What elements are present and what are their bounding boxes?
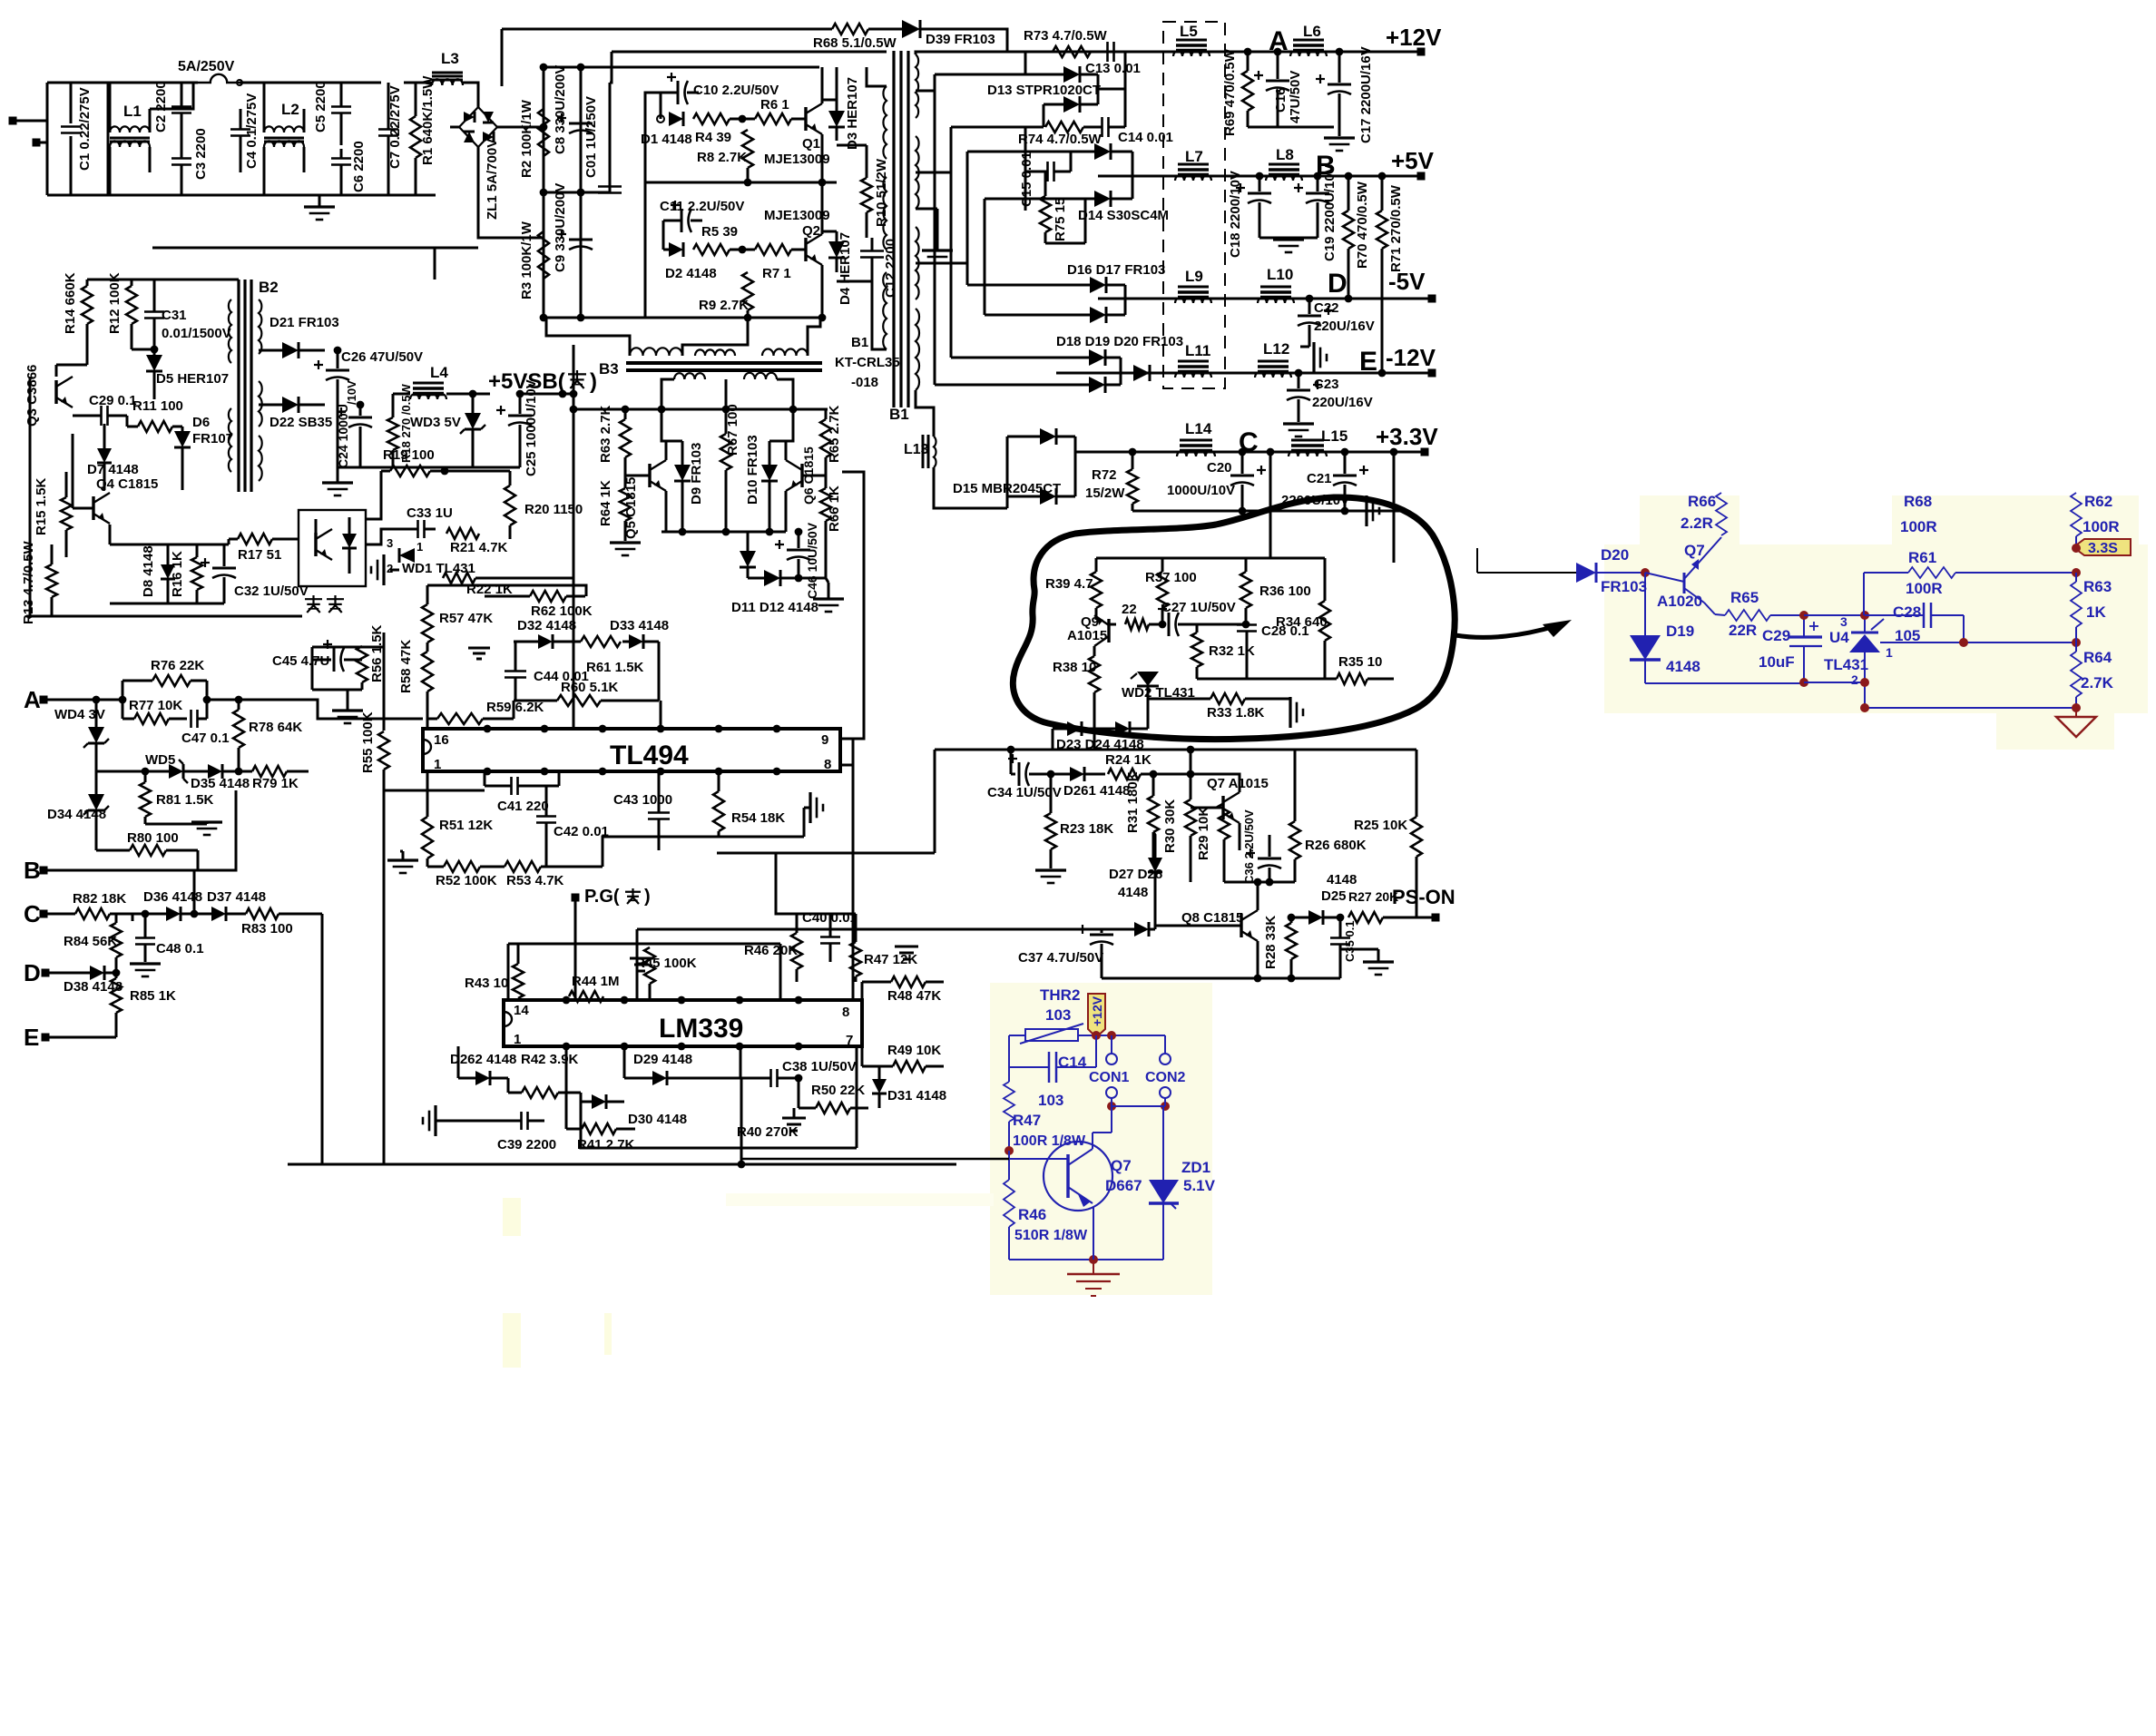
wire TL494 right link down [852, 765, 855, 929]
svg-text:C21: C21 [1307, 471, 1332, 486]
resistor R63 inset [2071, 573, 2112, 652]
resistor R72 15/2W [1085, 448, 1138, 511]
resistor R3 100K/1W [519, 221, 549, 299]
wire sec ladder v2 [950, 127, 953, 358]
wire C8 column [580, 67, 583, 318]
wire sec ladder v1 stub a [935, 74, 1025, 76]
svg-text:D3 HER107: D3 HER107 [845, 77, 860, 150]
wire pin9 col [852, 739, 855, 1000]
resistor R63 2.7K [598, 405, 631, 476]
svg-text:C28: C28 [1893, 603, 1921, 621]
wire lm339 frame top [508, 943, 780, 946]
resistor R67 100 [720, 404, 740, 532]
terminal C [24, 900, 75, 927]
svg-text:R36 100: R36 100 [1259, 584, 1311, 599]
wire driver bus y451 [573, 406, 828, 414]
diode D2 4148 [663, 242, 717, 281]
wire PG down [574, 897, 577, 944]
wire lm339 right col [861, 982, 864, 1046]
TL431 WD2 [1122, 672, 1195, 701]
resistor R56 1.5K [357, 624, 385, 690]
arrow to inset [1455, 620, 1572, 637]
svg-text:R44 1M: R44 1M [572, 974, 620, 989]
ground R23 [1035, 870, 1066, 883]
svg-text:B: B [24, 857, 41, 884]
svg-text:+5V: +5V [1391, 147, 1435, 174]
svg-text:CON1: CON1 [1089, 1070, 1130, 1085]
wire standby mid rail [110, 544, 224, 546]
wire standby low rail [110, 603, 224, 605]
wire C27 R32 join [1197, 623, 1247, 626]
svg-text:KT-CRL35: KT-CRL35 [835, 355, 900, 370]
label B1 KT-CRL35-018 [835, 335, 900, 390]
resistor R47 12K [850, 914, 917, 982]
wire top rail left drop [501, 29, 504, 86]
svg-text:R45 100K: R45 100K [635, 956, 697, 971]
svg-text:R10 51/2W: R10 51/2W [874, 158, 889, 227]
svg-text:D1 4148: D1 4148 [641, 132, 692, 147]
ground R51 [387, 851, 418, 873]
diode D5 HER107 [132, 346, 229, 399]
ground C22 sideways [1300, 342, 1327, 373]
ground R64 [610, 543, 641, 555]
svg-text:22R: 22R [1729, 622, 1757, 639]
svg-text:R12 100K: R12 100K [107, 272, 122, 334]
svg-text:+5VSB(: +5VSB( [488, 369, 565, 394]
wire y57 feed [612, 51, 887, 54]
diode D37 4148 [194, 889, 266, 921]
wire blob top feed [1096, 557, 1325, 560]
resistor R9 2.7K [699, 272, 753, 313]
diode D33 4148 [610, 618, 669, 649]
wire fuse to L2 top [240, 82, 381, 84]
wire sec ladder v1 [934, 74, 936, 385]
wire Q7 collector down [1239, 823, 1241, 850]
svg-text:0.01/1500V: 0.01/1500V [162, 326, 231, 341]
diode D29 4148 [624, 1046, 740, 1085]
resistor R82 18K [73, 891, 132, 919]
wire cell left boundary [644, 119, 647, 318]
wire B3 sec right [777, 379, 793, 409]
svg-text:R76 22K: R76 22K [151, 658, 204, 673]
junction R47 node [1004, 1146, 1014, 1155]
wire Q4 emitter [109, 525, 112, 544]
transistor Q7 D667 [1009, 1106, 1142, 1211]
svg-text:R69 470/0.5W: R69 470/0.5W [1222, 48, 1238, 136]
wire Q2 collector up [821, 182, 824, 234]
svg-text:D25: D25 [1321, 888, 1347, 904]
TL431 WD1 [387, 536, 475, 576]
svg-text:R27 20K: R27 20K [1348, 889, 1398, 904]
svg-text:): ) [644, 887, 651, 907]
resistor R31 180K [1125, 770, 1159, 858]
resistor R16 1K [170, 544, 202, 603]
ground PS-ON area [1340, 949, 1394, 975]
wire B1 sec top to +12 wire [916, 52, 1007, 54]
transistor Q8 C1815 [1155, 910, 1258, 941]
capacitor C18 2200/10V [1228, 171, 1271, 258]
junction mid bus [744, 179, 827, 187]
resistor R38 10 [1053, 646, 1100, 729]
svg-text:R84 56K: R84 56K [64, 934, 117, 949]
svg-text:C39 2200: C39 2200 [497, 1137, 556, 1152]
ground R40 [782, 1108, 806, 1131]
transformer B2 secondary winding [259, 299, 262, 481]
junction C8-C9 [544, 189, 610, 197]
resistor R68 5.1/0.5W [813, 24, 897, 51]
svg-text:D30 4148: D30 4148 [628, 1112, 687, 1127]
svg-text:C35 0.1: C35 0.1 [1343, 920, 1357, 962]
wire sec ladder v4 stub a [985, 198, 1085, 201]
wire C node drop [1267, 448, 1275, 558]
svg-text:3: 3 [1840, 614, 1847, 629]
svg-text:510R 1/8W: 510R 1/8W [1014, 1228, 1088, 1243]
resistor R19 100 [381, 447, 448, 510]
svg-text:THR2: THR2 [1040, 986, 1080, 1004]
svg-text:R30 30K: R30 30K [1162, 799, 1178, 853]
capacitor C6 [331, 141, 367, 195]
resistor R61 1.5K [575, 636, 644, 675]
diode D14 S30SC4M pair [1045, 143, 1169, 243]
resistor R76 22K [122, 658, 207, 700]
resistor R24 1K [1105, 752, 1191, 780]
svg-text:1: 1 [1886, 645, 1893, 660]
wire R4-R6 node [730, 118, 755, 121]
resistor R22ish 22 [1122, 602, 1162, 630]
wire Q6 collector [786, 409, 793, 460]
terminal E [24, 1024, 116, 1051]
svg-text:B1: B1 [851, 335, 868, 350]
capacitor C39 2200 [497, 1112, 556, 1152]
svg-text:1000U/10V: 1000U/10V [1167, 483, 1235, 498]
svg-text:D9 FR103: D9 FR103 [689, 443, 704, 505]
svg-text:R26 680K: R26 680K [1305, 838, 1367, 853]
resistor R49 10K [862, 1043, 944, 1072]
resistor R74 4.7/0.5W [1018, 122, 1102, 147]
wire C40 bus [740, 1046, 742, 1078]
svg-text:D11 D12 4148: D11 D12 4148 [731, 600, 818, 615]
wire +12V rail [1007, 51, 1417, 54]
wire +3.3 bottom return [1132, 510, 1401, 513]
diode D21 FR103 [259, 315, 339, 358]
wire x355 riser [288, 998, 322, 1164]
resistor R40 270K [737, 1124, 799, 1140]
svg-text:R29 10K: R29 10K [1196, 807, 1211, 860]
svg-text:A1020: A1020 [1657, 593, 1702, 610]
svg-text:5.1V: 5.1V [1183, 1177, 1216, 1194]
svg-text:100R: 100R [1906, 580, 1943, 597]
svg-text:R46: R46 [1018, 1206, 1046, 1223]
svg-text:C20: C20 [1207, 460, 1232, 476]
svg-text:3: 3 [387, 536, 393, 550]
svg-text:D6: D6 [192, 415, 210, 430]
svg-text:A: A [24, 686, 41, 713]
terminal -12V [1386, 344, 1436, 378]
label +5VSB [488, 369, 597, 394]
wire R42 col down [581, 1093, 625, 1148]
resistor R48 47K [862, 976, 944, 1004]
diode D7 4148 [87, 424, 139, 490]
wire under TL494 [603, 837, 719, 867]
svg-text:C47 0.1: C47 0.1 [181, 731, 230, 746]
capacitor C19 2200U/10V [1294, 164, 1338, 261]
wire feed into inset [741, 1159, 1009, 1164]
capacitor C36 2.2U/50V [1242, 809, 1281, 884]
wire R46 top rail [797, 913, 856, 916]
resistor R58 47K [398, 640, 433, 729]
diode D31 4148 [872, 1066, 946, 1108]
wire hv drop to B2 [434, 248, 436, 280]
wire C1 box bottom [47, 194, 108, 197]
thermistor THR2 [1009, 1024, 1130, 1044]
wire R8 bottom [747, 168, 750, 182]
capacitor C46 10U/50V [775, 522, 819, 599]
diode D28 4148 [637, 885, 1155, 1000]
svg-text:R73 4.7/0.5W: R73 4.7/0.5W [1024, 28, 1108, 44]
wire A node to TL494 [384, 718, 423, 721]
svg-text:D2 4148: D2 4148 [665, 266, 717, 281]
terminal +3.3V [1376, 423, 1438, 456]
svg-text:D31 4148: D31 4148 [887, 1088, 946, 1103]
resistor R33 1.8K [1148, 693, 1283, 721]
wire B node right [198, 790, 236, 870]
diode D30 4148 [581, 1093, 687, 1127]
svg-text:22: 22 [1122, 602, 1137, 617]
svg-text:-12V: -12V [1386, 344, 1436, 371]
ground R33 [1283, 697, 1303, 728]
resistor R21 4.7K [446, 528, 508, 555]
ground +3.3 sideways [1367, 495, 1379, 526]
inductor L1 (common-mode choke) [108, 83, 150, 195]
svg-text:D5 HER107: D5 HER107 [156, 371, 229, 387]
svg-text:1: 1 [416, 540, 423, 554]
label opto [305, 595, 344, 613]
svg-text:R49 10K: R49 10K [887, 1043, 941, 1058]
diode D20 blue [1576, 546, 1650, 595]
svg-text:16: 16 [434, 732, 449, 748]
svg-text:C4 0.1/275V: C4 0.1/275V [244, 93, 260, 169]
svg-text:R53 4.7K: R53 4.7K [506, 873, 564, 888]
wire primary bottom bus [544, 317, 820, 319]
svg-text:LM339: LM339 [659, 1014, 743, 1044]
terminal PG [572, 887, 651, 907]
svg-text:C3 2200: C3 2200 [193, 128, 209, 180]
svg-text:L6: L6 [1303, 23, 1321, 40]
svg-text:FR103: FR103 [1601, 578, 1647, 595]
svg-text:B1: B1 [889, 406, 909, 423]
wire mid link [384, 790, 485, 792]
svg-text:D261 4148: D261 4148 [1063, 783, 1130, 799]
svg-text:C26 47U/50V: C26 47U/50V [341, 349, 423, 365]
diode D6 FR107 [174, 415, 233, 490]
wire C16 bottom join [1248, 126, 1334, 129]
svg-text:A1015: A1015 [1067, 628, 1107, 643]
svg-text:R66 1K: R66 1K [827, 485, 842, 532]
diode D1 4148 [641, 112, 692, 147]
label THR2 103 [1040, 986, 1080, 1024]
svg-text:R16 1K: R16 1K [170, 551, 185, 597]
wire D4 connects [822, 230, 837, 233]
wire bottom inset rail [1009, 1207, 1163, 1264]
svg-text:Q3 C3866: Q3 C3866 [24, 365, 40, 427]
label A output [1269, 26, 1289, 56]
capacitor C5 [313, 81, 351, 145]
ground driver cell [813, 578, 844, 612]
wire top rail y32 [502, 28, 832, 31]
wire A node right [239, 700, 384, 719]
inductor L8 [1266, 146, 1302, 181]
wire sec ladder v4 [984, 199, 986, 315]
transformer B3 core [599, 360, 822, 378]
svg-text:D: D [24, 959, 41, 986]
wire R32/C28 bottom bus [1197, 678, 1325, 681]
transistor Q7 inset [1645, 537, 1721, 614]
svg-text:Q5 C1815: Q5 C1815 [623, 477, 639, 539]
resistor R12 100K [107, 272, 137, 349]
svg-text:D4 HER107: D4 HER107 [838, 232, 853, 305]
svg-text:D22 SB35: D22 SB35 [269, 415, 332, 430]
svg-text:R42 3.9K: R42 3.9K [521, 1052, 579, 1067]
transistor Q5 C1815 [623, 460, 666, 539]
svg-text:L5: L5 [1180, 23, 1198, 40]
transformer B1 secondary winding [916, 54, 919, 390]
wire R55 col down [383, 770, 386, 1164]
capacitor C40 0.01 [802, 910, 857, 962]
svg-text:R19 100: R19 100 [383, 447, 435, 463]
zener D34 4148 [47, 771, 109, 850]
junction A node [119, 696, 238, 704]
resistor R8 2.7K [697, 130, 753, 168]
svg-text:D7 4148: D7 4148 [87, 462, 139, 477]
resistor R29 10K [1196, 803, 1230, 882]
resistor R83 100 [241, 908, 322, 937]
svg-text:R17 51: R17 51 [238, 547, 281, 563]
svg-text:C1 0.22/275V: C1 0.22/275V [77, 87, 93, 171]
resistor R75 15 [1040, 172, 1068, 243]
resistor R13 4.7/0.5W [21, 540, 57, 624]
svg-text:103: 103 [1045, 1006, 1071, 1024]
svg-text:R6 1: R6 1 [760, 97, 789, 113]
svg-text:R9 2.7K: R9 2.7K [699, 298, 749, 313]
capacitor C28 inset [1865, 603, 1964, 644]
inductor L12 [1255, 340, 1291, 378]
resistor R68 inset [1900, 493, 1937, 535]
wire mid bus y201 [645, 181, 837, 184]
terminal +12V [1386, 24, 1442, 56]
svg-text:R58 47K: R58 47K [398, 640, 414, 693]
wire C1 box right [107, 83, 110, 195]
svg-text:MJE13009: MJE13009 [764, 208, 830, 223]
wire Q6 emitter [785, 491, 788, 532]
capacitor C1 [61, 83, 93, 195]
svg-text:10uF: 10uF [1759, 653, 1795, 671]
svg-text:D20: D20 [1601, 546, 1629, 564]
wire opto to R17 [272, 538, 299, 541]
svg-text:R62 100K: R62 100K [531, 603, 593, 619]
transistor Q6 C1815 [786, 446, 826, 505]
svg-text:R78 64K: R78 64K [249, 720, 302, 735]
wire driver emitter bus [661, 528, 786, 536]
svg-text:C11 2.2U/50V: C11 2.2U/50V [660, 199, 744, 214]
svg-text:C: C [24, 900, 41, 927]
resistor R59 6.2K [427, 700, 544, 724]
wire hv feed left [152, 247, 478, 250]
svg-text:R57 47K: R57 47K [439, 611, 493, 626]
capacitor C41 220 [485, 771, 559, 814]
resistor R41 2.7K [566, 1046, 635, 1152]
wire B1 sec stub top [916, 90, 935, 93]
inductor L13 [904, 435, 936, 468]
svg-text:8: 8 [842, 1005, 849, 1020]
resistor R62 100K [485, 591, 593, 619]
terminal +5V [1391, 147, 1435, 181]
resistor R65 2.7K [820, 405, 842, 476]
resistor R69 470/0.5W [1222, 48, 1253, 136]
capacitor C15 0.01 [1019, 127, 1071, 211]
svg-text:D14 S30SC4M: D14 S30SC4M [1078, 208, 1169, 223]
svg-text:C42 0.01: C42 0.01 [554, 824, 609, 839]
resistor R5 39 [693, 224, 738, 255]
resistor R6 1 [755, 97, 791, 124]
transformer B1 primary winding [883, 86, 887, 349]
svg-text:C33 1U: C33 1U [407, 505, 453, 521]
wire R5-R7 node [730, 249, 755, 251]
resistor R85 1K [111, 969, 176, 1037]
junction rails [1244, 48, 1387, 378]
svg-text:C24 1000U: C24 1000U [336, 404, 350, 468]
transformer B2 primary winding [229, 299, 231, 472]
ground C39 sideways [423, 1105, 508, 1136]
svg-text:L2: L2 [281, 101, 299, 118]
resistor R37 100 [1145, 558, 1197, 624]
wire B3 pri stub1 [546, 318, 630, 356]
svg-text:R65 2.7K: R65 2.7K [827, 405, 842, 463]
svg-text:WD5: WD5 [145, 752, 175, 768]
svg-text:R23 18K: R23 18K [1060, 821, 1113, 837]
wire B3 pri stub3 [808, 318, 820, 356]
connector CON2 [1130, 1035, 1186, 1098]
diode D15 MBR2045CT pair [953, 428, 1075, 508]
tag 3.3S [2072, 539, 2131, 556]
capacitor C45 4.7U [272, 640, 362, 672]
resistor R27 20K [1348, 889, 1432, 923]
svg-text:R67 100: R67 100 [725, 404, 740, 456]
wire D15 to +3.3 rail [1075, 451, 1089, 454]
capacitor C23 220U/16V [1287, 369, 1373, 422]
capacitor C38 1U/50V [740, 1059, 857, 1087]
ground WD1 sideways [371, 554, 399, 585]
svg-text:R47: R47 [1013, 1112, 1041, 1129]
svg-text:L9: L9 [1185, 268, 1203, 285]
svg-text:R83 100: R83 100 [241, 921, 293, 937]
inductor L6 [1290, 23, 1327, 56]
wire L3 to bridge [472, 83, 478, 91]
diode D11 4148 [740, 532, 756, 578]
resistor R54 18K [713, 771, 785, 837]
svg-text:/10V: /10V [345, 380, 358, 405]
zener WD4 3V [54, 696, 109, 771]
inductor L15 [1289, 427, 1347, 456]
resistor R60 5.1K [514, 642, 659, 706]
label A1020 [1657, 593, 1702, 610]
resistor R51 12K [422, 771, 493, 867]
svg-text:R61 1.5K: R61 1.5K [586, 660, 644, 675]
resistor R65 22R [1715, 589, 1804, 639]
svg-text:R21 4.7K: R21 4.7K [450, 540, 508, 555]
svg-text:D13 STPR1020CT: D13 STPR1020CT [987, 83, 1101, 98]
svg-text:R72: R72 [1092, 467, 1117, 483]
svg-text:C29: C29 [1762, 627, 1790, 644]
